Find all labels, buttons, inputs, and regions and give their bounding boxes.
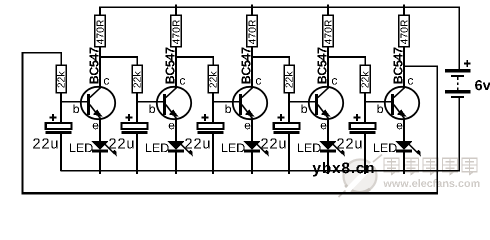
wire LED1 cathode to ground rail <box>99 152 101 174</box>
LED LED3 <box>222 141 269 157</box>
wire left feedback riser to R6 22k <box>23 53 62 194</box>
LED LED2 <box>146 141 193 157</box>
transistor Q5 BC547 <box>378 48 420 130</box>
capacitor C2 22u <box>109 102 147 171</box>
wire emitter Q3 to LED3 <box>251 119 253 142</box>
wire collector Q4 <box>327 47 329 89</box>
wire right feedback from Q5 collector to bottom rail <box>404 66 437 193</box>
transistor Q3 BC547 <box>226 48 268 130</box>
transistor Q1 BC547 <box>74 48 116 130</box>
resistor R9 22k <box>284 65 294 102</box>
wire C4 junction tick <box>288 171 290 174</box>
wire collector Q1 <box>99 47 101 89</box>
capacitor C4 22u <box>261 102 299 171</box>
capacitor C5 22u <box>337 102 375 171</box>
wire base node Q4 <box>288 101 316 103</box>
wire battery positive drop <box>458 7 460 69</box>
wire emitter Q5 to LED5 <box>403 119 405 142</box>
wire C5 junction tick <box>364 171 366 174</box>
wire battery negative drop <box>458 98 460 171</box>
wire collector Q4 to R10 22k <box>328 57 365 66</box>
wire emitter Q1 to LED1 <box>99 119 101 142</box>
battery BT1 6v <box>445 60 490 98</box>
LED LED4 <box>298 141 345 157</box>
wire base node Q2 <box>136 101 164 103</box>
capacitor C3 22u <box>185 102 223 171</box>
wire C3 junction tick <box>212 171 214 174</box>
wire collector Q3 <box>251 47 253 89</box>
resistor R5 470R <box>399 5 410 47</box>
LED LED5 <box>374 141 421 157</box>
wire collector Q3 to R9 22k <box>252 57 289 66</box>
wire ground sub-rail (LED cathodes and capacitors) <box>60 170 460 172</box>
resistor R7 22k <box>132 65 142 102</box>
transistor Q4 BC547 <box>302 48 344 130</box>
resistor R4 470R <box>323 5 334 47</box>
wire C2 junction tick <box>136 171 138 174</box>
wire base node Q5 <box>364 101 392 103</box>
resistor R8 22k <box>208 65 218 102</box>
resistor R10 22k <box>360 65 370 102</box>
LED LED1 <box>70 141 117 157</box>
watermark ybx8.cn <box>313 162 374 176</box>
wire emitter Q2 to LED2 <box>175 119 177 142</box>
wire LED2 cathode to ground rail <box>175 152 177 174</box>
resistor R3 470R <box>247 5 258 47</box>
watermark www.elecfans.com <box>383 179 479 187</box>
wire collector Q5 <box>403 47 405 89</box>
resistor R1 470R <box>95 7 106 47</box>
wire collector Q2 to R8 22k <box>176 57 213 66</box>
wire collector Q2 <box>175 47 177 89</box>
resistor R2 470R <box>171 5 182 47</box>
wire LED3 cathode to ground rail <box>251 152 253 174</box>
wire base node Q1 <box>60 101 88 103</box>
capacitor C1 22u <box>33 102 71 171</box>
watermark elecfans logo circle <box>339 155 383 198</box>
wire LED5 cathode to ground rail <box>403 152 405 174</box>
wire base node Q3 <box>212 101 240 103</box>
wire top +6v supply rail <box>99 6 460 8</box>
wire LED4 cathode to ground rail <box>327 152 329 174</box>
wire collector Q1 to R7 22k <box>100 57 137 66</box>
wire emitter Q4 to LED4 <box>327 119 329 142</box>
transistor Q2 BC547 <box>150 48 192 130</box>
resistor R6 22k <box>56 65 66 102</box>
wire bottom feedback rail <box>22 192 439 194</box>
watermark chinese characters <box>384 158 477 174</box>
